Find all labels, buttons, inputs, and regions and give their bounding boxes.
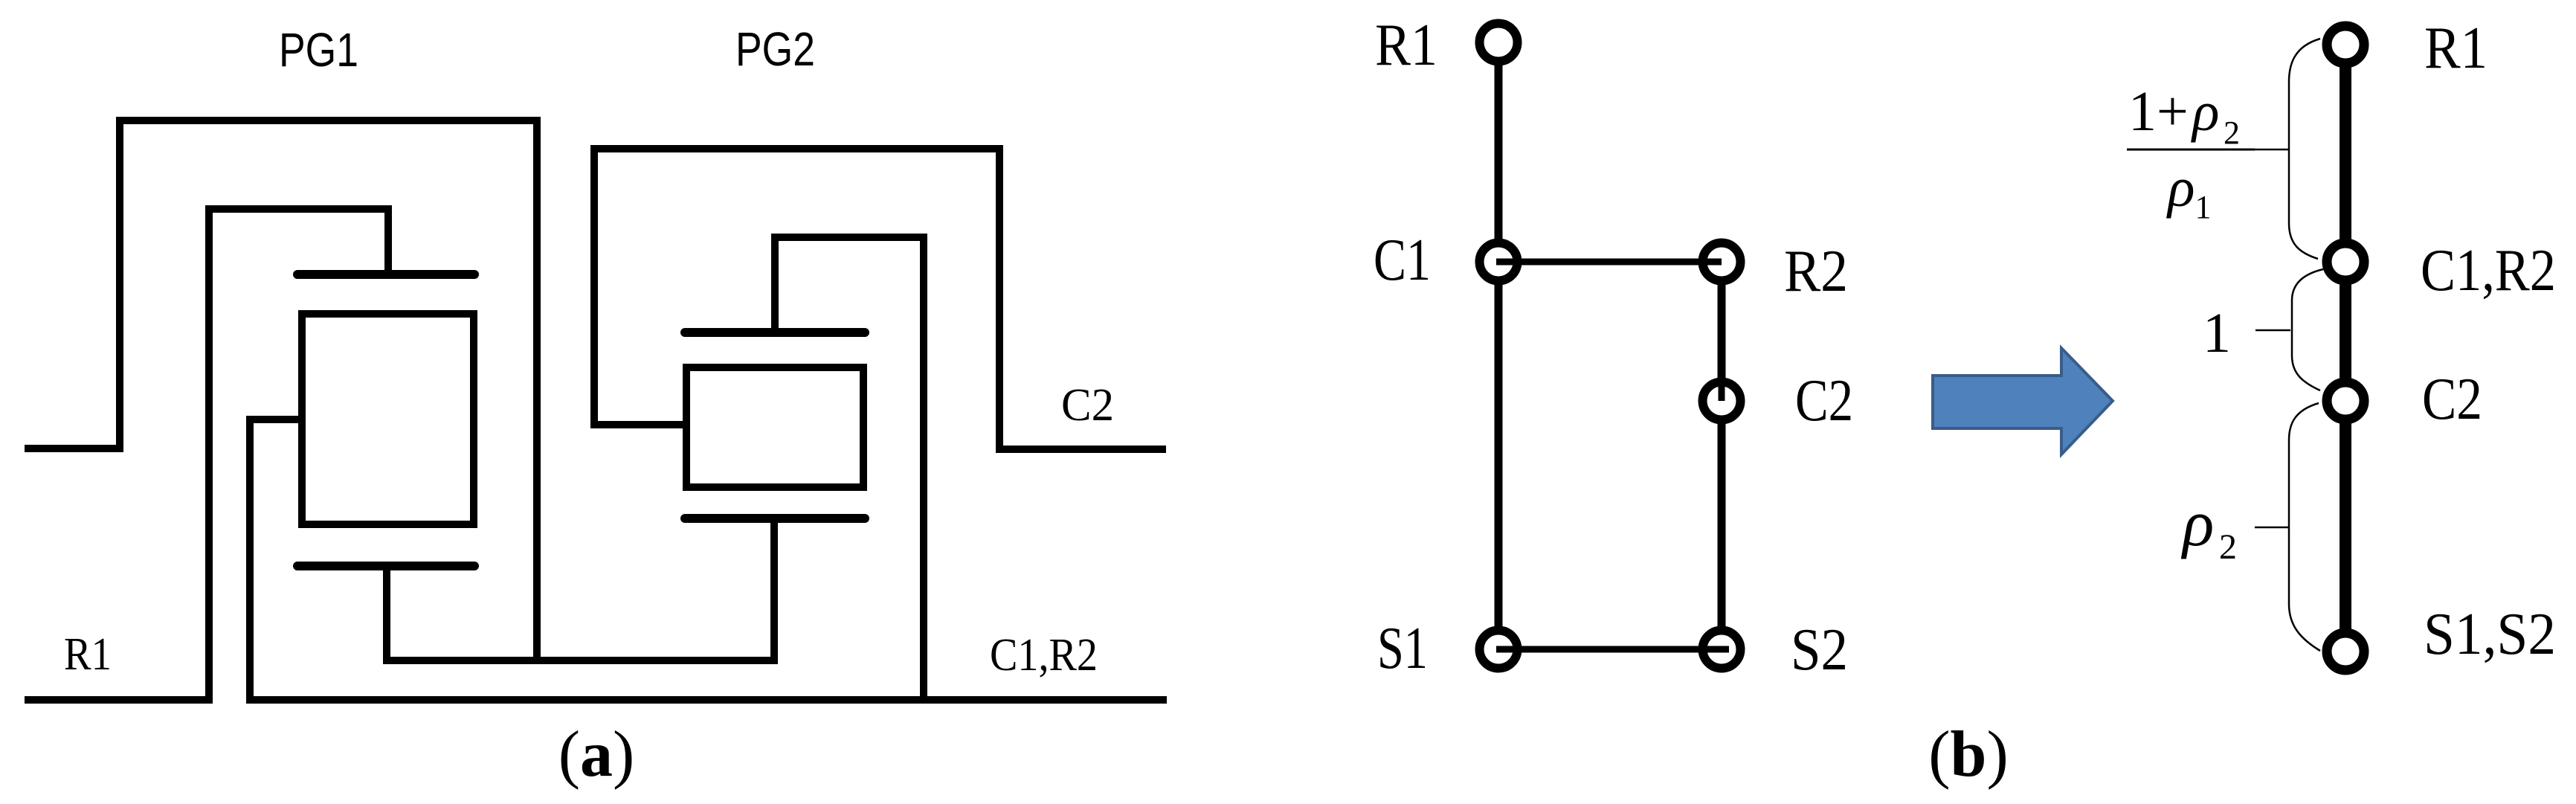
ring gear top bar PG1 — [297, 270, 474, 279]
svg-text:C2: C2 — [1061, 380, 1114, 431]
svg-text:C1,R2: C1,R2 — [2421, 238, 2556, 303]
wire link R2-C2 — [1719, 286, 1725, 401]
wire link C1-R2 — [1496, 259, 1722, 266]
wire merged lever vertical — [2340, 45, 2351, 652]
node C1 — [1480, 243, 1518, 281]
svg-text:R1: R1 — [2424, 16, 2488, 81]
node C2 — [1703, 382, 1741, 420]
wire outer shape PG1 (input stub, left riser, top edge, right drop) — [25, 120, 537, 664]
svg-text:2: 2 — [2224, 115, 2240, 151]
wire link S1-S2 — [1496, 646, 1729, 653]
wire bottom bus C1,R2 — [247, 696, 1167, 704]
svg-text:R1: R1 — [64, 629, 112, 680]
svg-text:S1,S2: S1,S2 — [2424, 602, 2556, 667]
ring gear top bar PG2 — [685, 328, 865, 337]
wire ring R2 of PG2 — [775, 237, 924, 704]
node C2 merged — [2327, 382, 2364, 419]
svg-text:C2: C2 — [1795, 368, 1853, 434]
svg-text:ρ: ρ — [2191, 80, 2219, 143]
svg-text:PG1: PG1 — [279, 23, 358, 77]
wire lever 2 vertical R2-C2-S2 — [1718, 262, 1726, 649]
tick fraction to brace — [2255, 149, 2289, 151]
svg-text:ρ: ρ — [2180, 488, 2214, 560]
carrier box PG2 — [686, 367, 863, 487]
svg-text:1+: 1+ — [2128, 80, 2189, 143]
node C1,R2 merged — [2327, 243, 2364, 280]
node R1 merged — [2327, 26, 2364, 63]
svg-text:2: 2 — [2219, 527, 2237, 567]
node R2 — [1703, 243, 1741, 281]
carrier box PG1 — [302, 314, 474, 524]
svg-text:(a): (a) — [558, 718, 635, 791]
svg-text:PG2: PG2 — [735, 22, 815, 76]
brace span C2 to S1,S2 — [2289, 403, 2320, 651]
tick rho2 to brace — [2255, 527, 2289, 529]
fraction bar — [2127, 149, 2255, 151]
svg-text:C2: C2 — [2422, 367, 2482, 432]
brace span R1 to C1,R2 — [2289, 39, 2320, 259]
wire lever 1 vertical R1-C1-S1 — [1495, 42, 1503, 649]
svg-text:R1: R1 — [1375, 13, 1437, 78]
wire sun shaft PG1 to PG2 — [387, 518, 774, 660]
svg-text:1: 1 — [2203, 302, 2231, 364]
node R1 — [1480, 24, 1518, 62]
wire ring R1 of PG1 (bottom stub, left riser, top edge, drop to top bar) — [25, 209, 388, 700]
svg-text:(b): (b) — [1928, 718, 2009, 791]
node S1,S2 merged — [2327, 633, 2364, 670]
svg-text:C1,R2: C1,R2 — [990, 630, 1098, 681]
brace span C1,R2 to C2 — [2292, 269, 2323, 390]
node S2 — [1703, 631, 1741, 669]
svg-text:C1: C1 — [1374, 228, 1431, 293]
wire carrier step PG1 — [250, 419, 306, 704]
ring gear bottom bar PG1 — [297, 562, 474, 570]
ring gear bottom bar PG2 — [685, 514, 865, 523]
tick 1 to brace — [2255, 329, 2290, 332]
svg-text:S2: S2 — [1791, 617, 1848, 683]
svg-text:R2: R2 — [1784, 239, 1848, 304]
wire outer carrier shape PG2 with C2 output stub — [594, 149, 1166, 449]
svg-text:S1: S1 — [1377, 616, 1428, 681]
arrow blue right — [1933, 348, 2113, 454]
node S1 — [1480, 631, 1518, 669]
